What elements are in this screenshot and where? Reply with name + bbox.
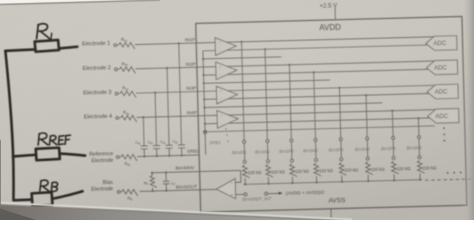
switch BIASN3 bbox=[366, 137, 369, 140]
resistor 220k col6 bbox=[366, 162, 373, 175]
label R1 handwritten bbox=[36, 23, 52, 39]
paper bottom edge + dark table band bbox=[0, 203, 352, 220]
op-amp PGA3 bbox=[216, 86, 237, 104]
capacitor C_IN channel 4 bbox=[141, 146, 148, 157]
wire bias summing bus bbox=[243, 180, 422, 185]
switch BIASP2 bbox=[290, 139, 293, 142]
wire hand RREF right bbox=[60, 153, 85, 156]
terminal circle electrode 4 bbox=[116, 117, 119, 120]
resistor 220k col8 bbox=[417, 160, 424, 173]
resistor 220k col2 bbox=[266, 164, 273, 177]
terminal circle electrode 3 bbox=[115, 92, 118, 95]
node SRB1 internal bus bbox=[203, 51, 206, 155]
capacitor C_IN channel 2 bbox=[166, 145, 173, 156]
resistor 220k col7 bbox=[391, 161, 398, 174]
op-amp PGA1 bbox=[215, 37, 236, 55]
switch BIASN1 bbox=[266, 140, 269, 143]
wire BIASINV bbox=[152, 171, 241, 185]
wire IN3N line bbox=[204, 103, 382, 108]
bias electrode input bbox=[120, 191, 121, 193]
wire bias tap P ch4 bbox=[391, 110, 393, 112]
op-amp PGA2 bbox=[216, 61, 237, 79]
wire SRB1 to - input ch2 bbox=[204, 69, 435, 75]
wire tap to C_IN channel 3 bbox=[154, 92, 156, 94]
wire electrode 1 input line (IN1P) bbox=[117, 44, 119, 46]
op-amp bias amplifier bbox=[216, 179, 236, 199]
IC body (ADS1299-style AFE) bbox=[196, 16, 467, 212]
wire electrode 3 input line (IN3P) bbox=[118, 93, 120, 95]
label RB handwritten bbox=[40, 180, 58, 192]
wire hand common bus bbox=[5, 51, 14, 201]
handwritten annotations bbox=[5, 23, 87, 207]
label RREF handwritten bbox=[38, 132, 71, 145]
paper right edge shadow bbox=[462, 0, 474, 220]
resistor 220k col3 bbox=[290, 164, 297, 177]
capacitor C_IN channel 3 bbox=[153, 145, 160, 156]
ellipsis after resistors bbox=[447, 172, 462, 174]
ADC 1 bbox=[426, 36, 457, 51]
wire IN1N line bbox=[203, 57, 281, 59]
reference electrode line / SRB1 pin wire bbox=[119, 155, 199, 157]
wire hand R1 right bbox=[59, 47, 77, 49]
wire bias tap N ch3 bbox=[365, 94, 367, 96]
wire IN4N line bbox=[205, 126, 435, 132]
wire bias tap P ch3 bbox=[338, 87, 340, 89]
wire bias tap P ch2 bbox=[288, 64, 290, 66]
switch BIASN2 bbox=[314, 138, 317, 141]
resistor 220k col4 bbox=[314, 163, 321, 176]
ellipsis more channels bbox=[225, 128, 229, 142]
paper left edge sliver bbox=[0, 140, 2, 208]
wire hand RB left bbox=[13, 198, 31, 201]
wire hand RREF left bbox=[13, 155, 36, 157]
capacitor C_IN channel 1 bbox=[178, 145, 185, 156]
printed schematic (rotated as photographed) bbox=[81, 0, 474, 225]
wire bias tap N ch4 bbox=[417, 117, 419, 119]
AVSS lead below chip bbox=[330, 209, 332, 219]
switch BIASN4 bbox=[417, 136, 420, 139]
resistor R_IN channel 4 bbox=[121, 115, 137, 122]
op-amp PGA4 bbox=[217, 110, 238, 128]
resistor 220k col1 bbox=[242, 165, 249, 178]
wire electrode 4 input line (IN4P) bbox=[119, 117, 121, 119]
resistor R_B bias bbox=[122, 189, 138, 196]
resistor R_IN channel 1 bbox=[119, 42, 135, 49]
ADC 3 bbox=[427, 84, 458, 99]
resistor R_IN channel 2 bbox=[119, 67, 135, 74]
switch BIASP4 bbox=[392, 136, 395, 139]
wire BIASOUT bbox=[140, 189, 217, 191]
wire electrode 2 input line (IN2P) bbox=[117, 68, 119, 70]
resistor R_F bias feedback bbox=[151, 172, 153, 174]
ADC 2 bbox=[426, 60, 457, 75]
wire SRB1 to - input ch4 bbox=[205, 118, 436, 124]
switch BIASREF_INT bbox=[236, 193, 279, 194]
wire bias tap N ch1 bbox=[264, 48, 266, 50]
wire tap to C_IN channel 4 bbox=[142, 116, 144, 118]
wire hand R1 left bbox=[5, 49, 35, 50]
terminal circle electrode 2 bbox=[114, 68, 117, 71]
wire SRB1 to - input ch3 bbox=[204, 93, 435, 99]
wire IN2N line bbox=[204, 80, 330, 83]
paper top edge: white sliver + shadow bbox=[0, 0, 150, 4]
ADC 4 bbox=[428, 109, 459, 124]
resistor R1 (hand-drawn box) bbox=[35, 40, 59, 52]
switch BIASP3 bbox=[339, 138, 342, 141]
wire tap to C_IN channel 1 bbox=[178, 42, 180, 44]
terminal circle electrode 1 bbox=[114, 44, 117, 47]
resistor RREF (hand-drawn box) bbox=[36, 148, 60, 161]
resistor RB (hand-drawn box) bbox=[32, 192, 53, 206]
switch BIASP1 bbox=[243, 140, 246, 143]
resistor 220k col5 bbox=[339, 162, 346, 175]
resistor R_IN channel 3 bbox=[120, 91, 136, 98]
wire SRB1 to - input ch1 bbox=[203, 45, 434, 51]
wire hand RB right bbox=[52, 191, 83, 198]
resistor R_IN reference bbox=[121, 154, 137, 161]
AVDD supply lead bbox=[334, 8, 336, 20]
wire bias tap P ch1 bbox=[240, 41, 242, 43]
wire tap to C_IN channel 2 bbox=[166, 67, 168, 69]
ellipsis below ADC4 bbox=[443, 127, 445, 141]
capacitor C_F bias feedback bbox=[165, 171, 167, 173]
wire bias tap N ch2 bbox=[313, 71, 315, 73]
